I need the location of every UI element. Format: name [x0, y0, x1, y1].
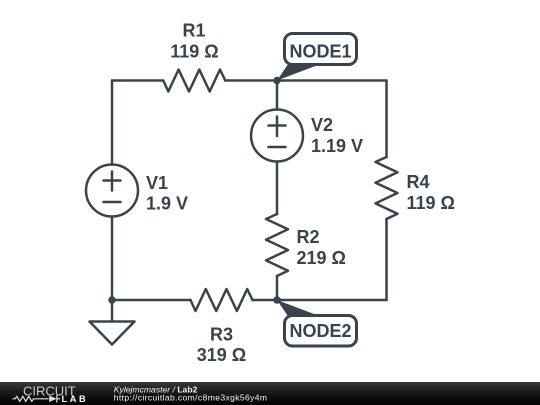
svg-text:http://circuitlab.com/c8me3xgk: http://circuitlab.com/c8me3xgk56y4m [114, 393, 268, 403]
svg-text:LAB: LAB [62, 394, 89, 404]
